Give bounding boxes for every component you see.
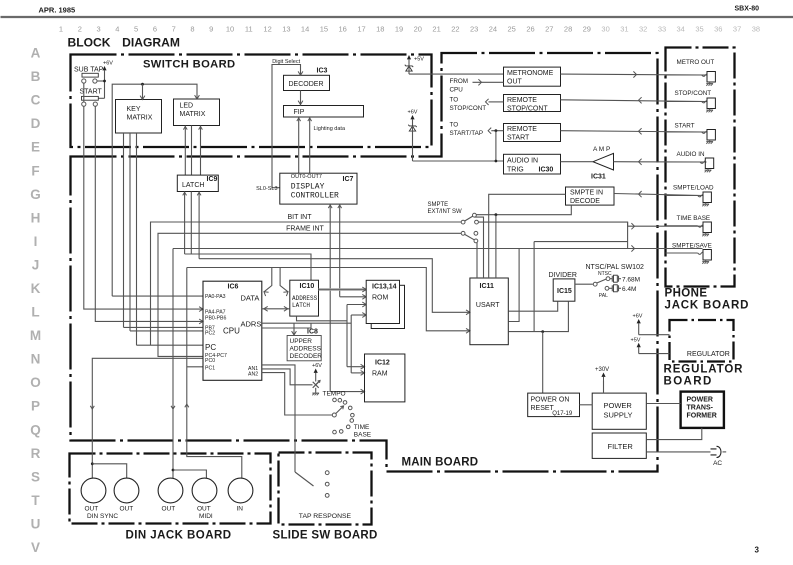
IC10 to ROM bus [319, 288, 367, 291]
wires IC7 bottom to bus [329, 204, 331, 392]
wire decode bottom to switch [476, 205, 571, 215]
svg-text:V: V [31, 540, 40, 555]
svg-text:30: 30 [601, 25, 609, 34]
phone jack START [707, 130, 715, 141]
svg-text:36: 36 [714, 25, 722, 34]
wires into usart top [495, 215, 497, 278]
svg-text:15: 15 [320, 25, 328, 34]
svg-text:DECODER: DECODER [289, 81, 324, 88]
svg-text:ROM: ROM [372, 295, 389, 302]
svg-text:32: 32 [639, 25, 647, 34]
svg-text:IC31: IC31 [591, 174, 606, 181]
bus line B with CPU/latch branches [187, 268, 470, 331]
svg-text:IC8: IC8 [307, 328, 318, 335]
svg-text:PHONE: PHONE [665, 288, 708, 300]
svg-text:OUT: OUT [197, 506, 211, 513]
svg-text:IN: IN [237, 506, 244, 513]
display controller IC7 [280, 173, 357, 204]
switch wires to CPU ports [84, 106, 203, 309]
svg-text:+5V: +5V [631, 338, 641, 344]
IC10 bottom to ROM/RAM bus [297, 316, 348, 321]
AC plug [711, 446, 722, 457]
svg-text:START: START [80, 89, 103, 96]
led matrix column wires [184, 126, 186, 176]
svg-text:NTSC/PAL SW102: NTSC/PAL SW102 [586, 264, 644, 271]
din jack DIN SYNC OUT 1 [81, 478, 106, 503]
svg-text:SMPTE/LOAD: SMPTE/LOAD [673, 185, 714, 192]
svg-text:37: 37 [733, 25, 741, 34]
wire to SMPTE/SAVE jack [666, 252, 698, 254]
wire to SMPTE/LOAD jack [666, 195, 698, 197]
din jack MIDI OUT 1 [158, 478, 183, 503]
svg-text:MATRIX: MATRIX [180, 111, 206, 118]
led matrix [174, 99, 220, 126]
din jack board outline [70, 454, 271, 524]
PB7 row [124, 326, 204, 328]
svg-text:DIN JACK BOARD: DIN JACK BOARD [126, 530, 232, 542]
main board outline [71, 53, 658, 472]
PC2 row [130, 330, 203, 332]
svg-text:34: 34 [677, 25, 685, 34]
PC1 row [187, 366, 203, 368]
svg-text:BIT INT: BIT INT [288, 214, 313, 221]
wire between switch poles [83, 83, 85, 102]
svg-text:EXT/INT SW: EXT/INT SW [428, 209, 463, 215]
wire tap response [262, 365, 295, 472]
svg-text:11: 11 [245, 25, 253, 34]
svg-text:UPPER: UPPER [290, 338, 313, 345]
svg-text:25: 25 [508, 25, 516, 34]
branch into IC8 [293, 323, 295, 335]
slide switch contact y=472.2 [325, 471, 329, 475]
remote start [504, 124, 561, 142]
svg-text:G: G [30, 187, 41, 202]
svg-text:24: 24 [489, 25, 497, 34]
svg-text:METRONOME: METRONOME [507, 70, 554, 77]
svg-text:8: 8 [190, 25, 194, 34]
svg-text:SWITCH BOARD: SWITCH BOARD [143, 59, 235, 71]
svg-text:PC1: PC1 [205, 366, 215, 372]
svg-text:CPU: CPU [223, 327, 240, 336]
wire decode to usart [489, 194, 566, 278]
metronome out [504, 67, 561, 86]
svg-text:35: 35 [695, 25, 703, 34]
svg-text:JACK BOARD: JACK BOARD [665, 300, 750, 312]
svg-text:H: H [31, 210, 41, 225]
time base rotary switch [332, 413, 336, 417]
svg-text:7: 7 [172, 25, 176, 34]
svg-text:21: 21 [432, 25, 440, 34]
PC0 / DIN SYNC wire [92, 358, 203, 478]
svg-text:C: C [31, 93, 41, 108]
svg-text:PAL: PAL [599, 293, 608, 299]
svg-text:2: 2 [78, 25, 82, 34]
svg-text:K: K [31, 281, 41, 296]
svg-text:+30V: +30V [595, 367, 609, 373]
svg-text:38: 38 [752, 25, 760, 34]
key matrix [116, 100, 162, 134]
svg-text:IC30: IC30 [539, 167, 554, 174]
ADRS second row stub [262, 323, 311, 328]
cpu IC6 [203, 281, 262, 380]
time base rotary contact -42deg [346, 425, 350, 429]
wire +6V to switches [104, 70, 106, 98]
svg-text:16: 16 [339, 25, 347, 34]
svg-text:SLIDE SW BOARD: SLIDE SW BOARD [273, 530, 378, 542]
svg-text:A: A [31, 46, 41, 61]
svg-text:18: 18 [376, 25, 384, 34]
wire start jack [561, 131, 707, 132]
divider feed [534, 241, 628, 243]
slide sw board outline [279, 453, 372, 525]
svg-text:ADRS: ADRS [241, 320, 262, 329]
ground at SMPTE/LOAD jack [705, 203, 707, 205]
svg-text:E: E [31, 140, 40, 155]
usart IC11 [470, 278, 508, 345]
svg-text:STOP/CONT: STOP/CONT [675, 90, 712, 97]
svg-text:IC11: IC11 [480, 283, 495, 290]
wire metro out to jack [561, 73, 707, 76]
svg-text:POWER: POWER [604, 401, 633, 410]
regulator board outline [670, 320, 734, 362]
usart to divider wires [508, 301, 557, 311]
svg-text:+5V: +5V [414, 57, 424, 63]
data bus CPU-IC10 [262, 308, 290, 310]
svg-text:BOARD: BOARD [664, 376, 713, 388]
wire to DIN MIDI IN [187, 268, 242, 479]
save line branch [508, 249, 519, 322]
svg-text:RAM: RAM [372, 371, 388, 378]
svg-text:28: 28 [564, 25, 572, 34]
svg-text:17: 17 [357, 25, 365, 34]
power supply [592, 393, 646, 429]
svg-text:TO: TO [450, 122, 459, 129]
svg-text:REMOTE: REMOTE [507, 97, 537, 104]
svg-text:PB0-PB6: PB0-PB6 [205, 315, 226, 321]
svg-text:MIDI: MIDI [199, 513, 213, 520]
svg-text:AUDIO IN: AUDIO IN [507, 157, 538, 164]
wire decode to jack [614, 194, 703, 196]
FIP display [284, 106, 364, 118]
wire decoder to FIP [300, 91, 302, 106]
time base rotary contact -16deg [350, 419, 354, 423]
svg-text:MAIN BOARD: MAIN BOARD [402, 457, 479, 469]
svg-text:+6V: +6V [103, 61, 113, 67]
ground at START jack [709, 140, 711, 142]
svg-text:MATRIX: MATRIX [127, 115, 153, 122]
ADRS bus [262, 322, 351, 324]
wire to METRO OUT jack [666, 74, 702, 76]
svg-text:I: I [34, 234, 38, 249]
ram IC12 [365, 354, 405, 402]
filter [592, 433, 646, 458]
svg-text:U: U [31, 517, 41, 532]
svg-text:Q17-19: Q17-19 [552, 411, 573, 417]
svg-text:F: F [31, 163, 39, 178]
zener diode [405, 65, 413, 67]
svg-text:SMPTE IN: SMPTE IN [570, 190, 603, 197]
svg-text:START/TAP: START/TAP [450, 130, 484, 137]
svg-text:19: 19 [395, 25, 403, 34]
svg-text:LATCH: LATCH [182, 182, 204, 189]
svg-text:POWER: POWER [687, 397, 713, 404]
phone jack TIME BASE [703, 222, 711, 233]
SMPTE SAVE line [173, 248, 703, 250]
svg-text:FROM: FROM [450, 78, 469, 85]
svg-text:L: L [31, 305, 39, 320]
svg-text:B: B [31, 69, 41, 84]
wires power chain [580, 404, 593, 406]
svg-text:O: O [30, 375, 41, 390]
wire to START jack [666, 131, 702, 133]
crystal 6.4M [609, 287, 612, 289]
wire matrix feed [112, 84, 197, 296]
svg-text:PA0-PA3: PA0-PA3 [205, 294, 226, 300]
time base rotary contact 57deg [343, 401, 347, 405]
svg-text:27: 27 [545, 25, 553, 34]
svg-text:ADDRESS: ADDRESS [292, 295, 318, 302]
svg-text:DIVIDER: DIVIDER [549, 272, 577, 279]
svg-text:R: R [31, 446, 41, 461]
svg-text:12: 12 [263, 25, 271, 34]
svg-text:AUDIO IN: AUDIO IN [677, 151, 705, 158]
svg-text:SL0-SL3: SL0-SL3 [256, 186, 277, 192]
wire AN2 to time base switch [262, 373, 332, 415]
phone jack board outline [666, 48, 735, 287]
svg-text:PC: PC [205, 343, 216, 352]
svg-text:+6V: +6V [408, 110, 418, 116]
slide switch contact y=483.6 [325, 482, 329, 486]
svg-text:20: 20 [414, 25, 422, 34]
svg-text:IC13,14: IC13,14 [372, 284, 397, 291]
switch board outline [71, 55, 432, 148]
svg-text:REGULATOR: REGULATOR [687, 351, 730, 358]
svg-text:23: 23 [470, 25, 478, 34]
svg-text:STOP/CONT: STOP/CONT [450, 105, 487, 112]
svg-text:METRO OUT: METRO OUT [677, 59, 715, 66]
svg-text:OUT0-OUT7: OUT0-OUT7 [291, 174, 322, 180]
svg-text:+6V: +6V [312, 363, 322, 369]
svg-text:AN2: AN2 [248, 372, 258, 378]
svg-text:SMPTE/SAVE: SMPTE/SAVE [672, 243, 712, 250]
wire to power on reset [542, 332, 544, 394]
wire to DIN MIDI OUT [172, 249, 174, 479]
svg-text:FILTER: FILTER [608, 442, 634, 451]
svg-text:BASE: BASE [354, 432, 372, 439]
svg-text:RESET: RESET [531, 405, 555, 412]
svg-text:POWER ON: POWER ON [531, 397, 570, 404]
svg-text:PC2: PC2 [205, 330, 215, 336]
time base rotary contact -72deg [339, 430, 343, 434]
latch data bus lines [184, 192, 186, 255]
svg-text:IC15: IC15 [557, 288, 572, 295]
PA0 row [112, 295, 203, 297]
svg-text:KEY: KEY [127, 106, 141, 113]
svg-text:START: START [507, 135, 530, 142]
svg-text:FRAME INT: FRAME INT [286, 226, 324, 233]
svg-text:LED: LED [180, 103, 194, 110]
svg-text:TIME BASE: TIME BASE [677, 215, 711, 222]
time base rotary contact -96deg [333, 430, 337, 434]
ground at SMPTE/SAVE jack [705, 260, 707, 262]
svg-text:TIME: TIME [354, 424, 370, 431]
svg-text:Q: Q [30, 422, 41, 437]
rom IC13,14 [371, 285, 404, 328]
ruler numbers [59, 25, 760, 34]
power on reset [528, 393, 580, 417]
svg-text:OUT: OUT [162, 506, 176, 513]
svg-text:BLOCK DIAGRAM: BLOCK DIAGRAM [68, 36, 180, 50]
svg-text:START: START [675, 123, 695, 130]
svg-text:APR. 1985: APR. 1985 [39, 6, 76, 15]
svg-text:A M P: A M P [593, 146, 610, 153]
slide switch contact y=494.9 [325, 494, 329, 498]
time base rotary contact 3deg [351, 413, 355, 417]
phone jack METRO OUT [707, 72, 715, 83]
power transformer [681, 392, 724, 428]
svg-text:REGULATOR: REGULATOR [664, 364, 744, 376]
ground at METRO OUT jack [709, 82, 711, 84]
wire AN1 to tempo pot [262, 369, 313, 385]
svg-text:5: 5 [134, 25, 138, 34]
crystal 7.68M [610, 278, 612, 280]
ground at AUDIO IN jack [707, 169, 709, 171]
svg-text:33: 33 [658, 25, 666, 34]
row letters [30, 46, 41, 556]
svg-text:14: 14 [301, 25, 309, 34]
svg-text:TEMPO: TEMPO [323, 391, 346, 398]
svg-text:DISPLAY: DISPLAY [291, 183, 325, 192]
tap response slide switch [295, 472, 314, 486]
svg-text:D: D [31, 116, 41, 131]
time base rotary contact 96deg [333, 398, 337, 402]
wire stop jack [561, 100, 707, 102]
svg-text:N: N [31, 352, 41, 367]
branch into IC10 [280, 268, 288, 292]
svg-text:T: T [31, 493, 40, 508]
svg-text:IC10: IC10 [300, 283, 315, 290]
svg-text:DECODER: DECODER [290, 353, 323, 360]
key matrix column wires [123, 133, 125, 327]
time base rotary contact 30deg [348, 406, 352, 410]
time base rotary contact 77deg [338, 398, 342, 402]
svg-text:9: 9 [209, 25, 213, 34]
svg-text:OUT: OUT [85, 506, 99, 513]
svg-text:OUT: OUT [120, 506, 134, 513]
audio in trig IC30 [504, 154, 561, 174]
svg-text:AC: AC [713, 460, 722, 467]
din jack DIN SYNC OUT 2 [114, 478, 139, 503]
svg-text:DECODE: DECODE [570, 198, 600, 205]
svg-text:6.4M: 6.4M [622, 286, 636, 293]
phone jack STOP/CONT [707, 98, 715, 109]
wire to STOP/CONT jack [666, 101, 702, 103]
svg-text:TRANS-: TRANS- [687, 405, 714, 412]
svg-text:STOP/CONT: STOP/CONT [507, 106, 548, 113]
svg-text:SUB TAP: SUB TAP [74, 67, 104, 74]
ground at TIME BASE jack [705, 233, 707, 235]
address latch IC10 [290, 280, 319, 316]
svg-text:4: 4 [115, 25, 119, 34]
svg-text:DATA: DATA [241, 294, 260, 303]
svg-text:TAP RESPONSE: TAP RESPONSE [299, 513, 352, 520]
svg-text:S: S [31, 469, 40, 484]
phone jack AUDIO IN [705, 158, 713, 169]
svg-text:FIP: FIP [294, 109, 305, 116]
svg-text:7.68M: 7.68M [622, 277, 640, 284]
svg-text:M: M [30, 328, 41, 343]
svg-text:CPU: CPU [450, 87, 464, 94]
svg-text:+6V: +6V [633, 314, 643, 320]
svg-text:SBX-80: SBX-80 [735, 6, 760, 13]
svg-text:3: 3 [755, 546, 760, 555]
svg-text:1: 1 [59, 25, 63, 34]
svg-text:TO: TO [450, 96, 459, 103]
wire to TIME BASE jack [666, 225, 698, 227]
svg-text:IC9: IC9 [207, 176, 218, 183]
svg-text:ADDRESS: ADDRESS [290, 346, 322, 353]
top rule [1, 16, 793, 18]
din jack MIDI OUT 2 [192, 478, 217, 503]
branch into CPU data port [264, 268, 272, 292]
bus line A to USART [199, 259, 470, 313]
svg-text:Lighting data: Lighting data [314, 126, 346, 132]
svg-text:31: 31 [620, 25, 628, 34]
svg-text:26: 26 [526, 25, 534, 34]
svg-text:CONTROLLER: CONTROLLER [291, 192, 339, 201]
remote stop/cont [504, 95, 561, 112]
svg-text:OUT: OUT [507, 79, 523, 86]
bus to IC10 top [185, 254, 311, 280]
time base jack wire [478, 222, 702, 226]
svg-text:IC7: IC7 [343, 176, 354, 183]
svg-text:SMPTE: SMPTE [428, 202, 449, 208]
svg-text:USART: USART [476, 302, 500, 309]
smpte in decode [566, 187, 615, 205]
svg-text:IC6: IC6 [228, 284, 239, 291]
svg-text:10: 10 [226, 25, 234, 34]
svg-text:FORMER: FORMER [687, 413, 717, 420]
phone jack SMPTE/LOAD [703, 192, 711, 203]
svg-text:REMOTE: REMOTE [507, 126, 537, 133]
svg-text:6: 6 [153, 25, 157, 34]
svg-text:PC0: PC0 [205, 358, 215, 364]
svg-text:22: 22 [451, 25, 459, 34]
svg-text:IC3: IC3 [317, 68, 328, 75]
svg-text:DIN SYNC: DIN SYNC [87, 513, 118, 520]
ground at STOP/CONT jack [709, 109, 711, 111]
svg-text:LATCH: LATCH [292, 302, 310, 309]
svg-text:P: P [31, 399, 40, 414]
svg-text:13: 13 [282, 25, 290, 34]
svg-text:J: J [32, 258, 40, 273]
svg-text:NTSC: NTSC [598, 271, 612, 277]
svg-text:SUPPLY: SUPPLY [604, 410, 633, 419]
wire to AUDIO IN jack [666, 161, 701, 163]
din jack MIDI IN [228, 478, 253, 503]
svg-text:TRIG: TRIG [507, 167, 524, 174]
svg-text:IC12: IC12 [375, 360, 390, 367]
svg-text:3: 3 [97, 25, 101, 34]
phone jack SMPTE/SAVE [703, 250, 711, 261]
svg-text:29: 29 [583, 25, 591, 34]
